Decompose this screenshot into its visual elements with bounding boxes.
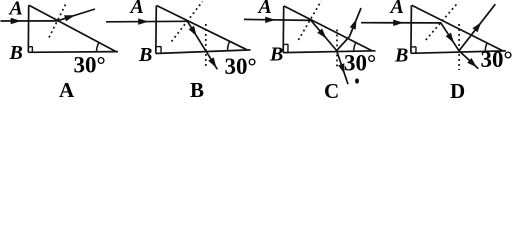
prism A: right-angle mark at B	[31, 47, 33, 53]
prism C: hypotenuse	[284, 6, 372, 51]
incident ray panel A	[1, 20, 58, 22]
svg-text:A: A	[8, 0, 23, 20]
prism A: vertical face AB	[27, 5, 29, 52]
reflected ray at bottom face going up through hypotenuse panel D	[459, 4, 495, 51]
normal (dashed vertical) at bottom face panel B	[205, 24, 207, 66]
refracted ray exiting bottom face panel D	[459, 51, 478, 69]
svg-text:C: C	[324, 79, 339, 100]
svg-text:A: A	[129, 0, 144, 18]
prism A: hypotenuse	[29, 5, 116, 51]
svg-text:A: A	[59, 78, 75, 100]
reflected ray at bottom face (inside prism) panel C	[337, 37, 350, 51]
totally internally reflected ray panel D	[441, 23, 459, 51]
refracted ray through prism and out bottom, panel B	[188, 21, 218, 69]
reflected ray refracted out through hypotenuse panel C	[350, 8, 362, 37]
svg-text:B: B	[9, 42, 23, 64]
prism B: right-angle mark at B	[160, 47, 162, 54]
svg-text:30°: 30°	[74, 53, 106, 78]
prism B: 30-degree arc	[228, 41, 230, 50]
normal (dotted) at hypotenuse panel B	[172, 2, 203, 42]
prism C: vertical face AB	[282, 6, 285, 53]
prism D: vertical face AB	[410, 5, 413, 53]
normal (dotted) at hypotenuse panel C	[298, 1, 321, 40]
svg-text:B: B	[138, 44, 152, 66]
incident ray panel C	[244, 19, 311, 20]
prism B: bottom face	[156, 50, 251, 54]
svg-text:A: A	[389, 0, 404, 18]
svg-text:D: D	[450, 79, 465, 100]
prism D: right-angle mark at B	[415, 47, 417, 53]
stray ink mark panel C	[355, 78, 359, 83]
prism D: hypotenuse	[412, 5, 503, 50]
svg-text:30°: 30°	[344, 51, 376, 76]
prism A: bottom face	[28, 51, 118, 54]
incident ray panel D	[361, 22, 441, 24]
svg-text:B: B	[394, 45, 408, 67]
prism D: 30-degree arc	[485, 43, 487, 51]
svg-text:30°: 30°	[225, 54, 257, 79]
svg-text:30°: 30°	[481, 47, 513, 72]
normal (dotted) at hypotenuse panel D	[426, 2, 459, 40]
svg-text:A: A	[257, 0, 272, 18]
totally internally reflected ray panel C	[311, 20, 337, 50]
normal (dotted) at hypotenuse panel A	[49, 3, 67, 38]
incident ray panel B	[106, 20, 188, 23]
prism B: vertical face AB	[155, 6, 158, 54]
refracted ray exiting hypotenuse panel A	[57, 9, 95, 21]
prism C: right-angle mark at B	[287, 44, 289, 52]
prism B: hypotenuse	[157, 6, 247, 50]
prism A: 30-degree arc	[97, 43, 99, 52]
normal (dashed vertical) at bottom face panel C	[336, 30, 338, 69]
prism D: bottom face	[411, 51, 506, 53]
normal (dashed vertical) at bottom face panel D	[458, 24, 460, 70]
prism C: 30-degree arc	[354, 43, 356, 52]
prism C: bottom face	[283, 51, 375, 53]
svg-text:B: B	[269, 44, 283, 66]
svg-text:B: B	[190, 78, 204, 100]
refracted ray exiting bottom face panel C	[337, 51, 348, 85]
